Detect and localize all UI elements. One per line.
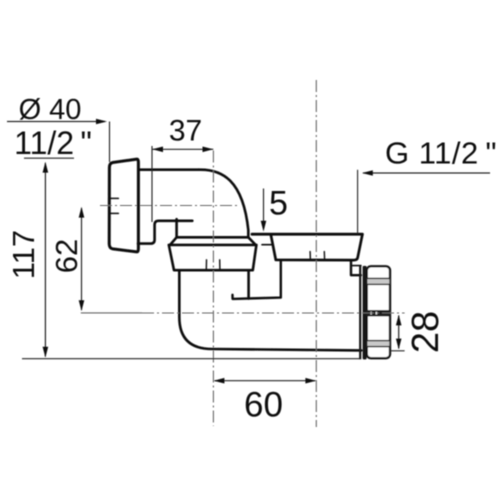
dim line 60	[215, 380, 316, 382]
dim line 28	[398, 316, 400, 349]
center lines	[81, 80, 405, 427]
dim line 37	[152, 148, 213, 150]
arrow 60 right	[305, 378, 316, 384]
arrow 117 top	[43, 162, 49, 173]
svg-text:62: 62	[49, 239, 84, 273]
trap body outline	[179, 271, 361, 351]
union nut knurl ticks	[206, 260, 220, 270]
arrowheads	[43, 119, 402, 384]
svg-text:5: 5	[269, 185, 288, 223]
nut middle dark band	[366, 310, 390, 316]
outlet pipe end edge	[359, 266, 361, 359]
cup inner rim line	[262, 244, 272, 246]
cup knurl ticks	[310, 252, 325, 260]
svg-text:60: 60	[244, 386, 283, 425]
arrow 62 bottom	[79, 300, 85, 311]
extension line 28 bottom	[390, 350, 404, 352]
arrow 5 down	[261, 221, 267, 232]
trap internal partition	[233, 261, 281, 299]
cup top edge	[252, 233, 362, 236]
extension line dia40 to flange	[109, 122, 111, 163]
centerline elbow vertical axis	[212, 151, 214, 427]
wall flange	[109, 159, 138, 252]
underline 11/2	[24, 157, 74, 159]
extension line G thread	[357, 170, 359, 234]
arrow 28 down	[396, 339, 402, 350]
elbow male tube left edge	[175, 219, 178, 236]
nut bottom knurl band	[367, 341, 390, 347]
centerline outlet vertical axis	[315, 80, 317, 427]
leader line dia40	[7, 121, 105, 123]
svg-text:28: 28	[405, 311, 447, 353]
centerline lower pipe axis	[81, 312, 142, 314]
dimension lines	[7, 122, 490, 381]
arrow 37 right	[203, 147, 214, 153]
arrow 37 left	[152, 147, 163, 153]
svg-text:11/2 ": 11/2 "	[14, 125, 92, 161]
extension line 37 left	[151, 146, 153, 222]
extension line bottom 117	[22, 358, 361, 360]
centerline flange axis	[100, 205, 240, 207]
union nut collar	[170, 237, 255, 244]
outlet nut body	[367, 266, 390, 358]
outlet step below cup	[351, 260, 361, 275]
svg-text:37: 37	[169, 115, 202, 148]
nut top knurl band	[367, 278, 390, 284]
arrow 117 bottom	[43, 347, 49, 358]
arrow 28 up	[396, 315, 402, 326]
svg-text:Ø 40: Ø 40	[19, 94, 82, 126]
leader line G	[363, 172, 490, 174]
svg-text:117: 117	[6, 230, 41, 279]
arrow 62 top	[79, 207, 85, 218]
arrow G left	[362, 170, 373, 176]
elbow outer curve	[199, 170, 249, 237]
leader line 5	[263, 189, 265, 226]
svg-text:G 11/2 ": G 11/2 "	[385, 136, 497, 171]
union nut body	[169, 245, 257, 270]
outlet ledge above washer	[352, 265, 361, 267]
dim line 62	[81, 208, 83, 310]
arrow dia40 right	[96, 119, 107, 125]
pipe bottom step edge	[138, 221, 192, 244]
flange tick marks	[109, 198, 118, 213]
pipe top edge	[138, 168, 198, 171]
cup body	[271, 235, 362, 260]
washer strip	[363, 266, 367, 360]
dim line 117	[44, 163, 46, 357]
trap downpipe right edge	[247, 271, 250, 299]
arrow 60 left	[214, 378, 225, 384]
